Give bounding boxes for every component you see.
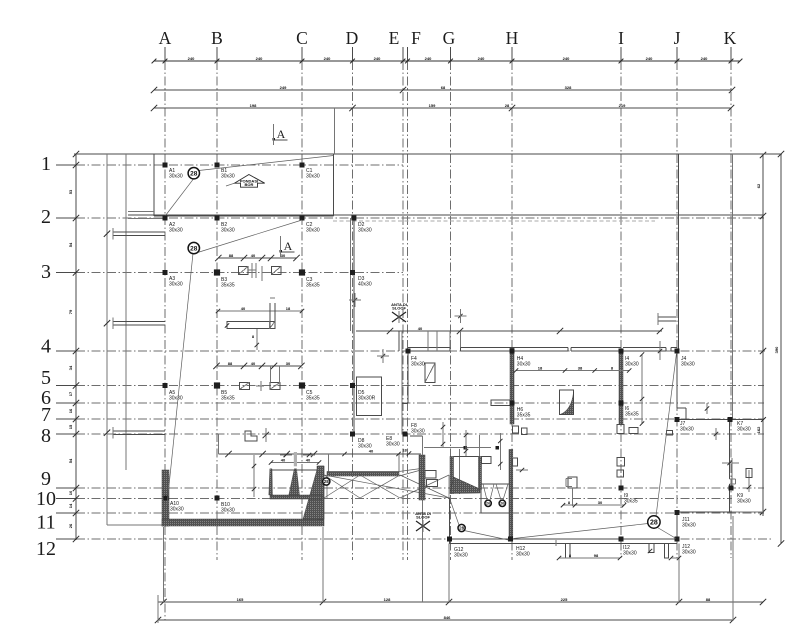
svg-text:30x30: 30x30: [454, 553, 468, 559]
svg-text:28: 28: [650, 520, 658, 527]
svg-text:8: 8: [41, 425, 51, 447]
svg-text:5: 5: [41, 367, 51, 389]
svg-text:35x35: 35x35: [306, 396, 320, 402]
svg-text:30x30: 30x30: [681, 362, 695, 368]
svg-text:18: 18: [286, 306, 291, 311]
svg-text:38: 38: [578, 366, 583, 371]
svg-text:C: C: [296, 28, 308, 48]
svg-text:88: 88: [706, 597, 711, 602]
svg-text:A: A: [277, 127, 286, 141]
svg-text:30x30: 30x30: [517, 362, 531, 368]
svg-text:240: 240: [374, 56, 381, 61]
svg-text:165: 165: [237, 597, 244, 602]
svg-text:40x30: 40x30: [358, 282, 372, 288]
svg-text:40: 40: [281, 458, 286, 463]
svg-text:159: 159: [429, 103, 436, 108]
svg-text:26: 26: [486, 501, 491, 506]
svg-text:40: 40: [251, 361, 256, 366]
svg-text:30x30: 30x30: [306, 228, 320, 234]
svg-text:198: 198: [250, 103, 257, 108]
svg-text:30x30: 30x30: [221, 174, 235, 180]
svg-text:30x30: 30x30: [682, 550, 696, 556]
svg-text:30: 30: [286, 361, 291, 366]
svg-text:128: 128: [384, 597, 391, 602]
svg-text:30x30: 30x30: [682, 523, 696, 529]
svg-text:219: 219: [619, 103, 626, 108]
svg-text:12: 12: [36, 538, 56, 560]
svg-text:34: 34: [68, 365, 73, 370]
svg-text:30x30: 30x30: [411, 429, 425, 435]
svg-text:30x30: 30x30: [358, 228, 372, 234]
svg-text:53: 53: [68, 189, 73, 194]
svg-text:54: 54: [68, 458, 73, 463]
svg-text:10: 10: [36, 488, 56, 510]
svg-text:162: 162: [756, 426, 761, 433]
svg-text:40: 40: [241, 306, 246, 311]
svg-text:E: E: [389, 28, 400, 48]
svg-text:B: B: [211, 28, 223, 48]
svg-text:98: 98: [594, 553, 599, 558]
svg-text:30x30: 30x30: [386, 442, 400, 448]
svg-text:9: 9: [41, 468, 51, 490]
svg-text:30x30R: 30x30R: [358, 396, 376, 402]
svg-text:H: H: [506, 28, 519, 48]
svg-text:26: 26: [500, 501, 505, 506]
svg-text:30x30: 30x30: [625, 362, 639, 368]
svg-text:2: 2: [41, 206, 51, 228]
svg-text:28: 28: [190, 245, 198, 252]
svg-text:30x30: 30x30: [170, 507, 184, 513]
svg-text:240: 240: [256, 56, 263, 61]
svg-text:68: 68: [441, 85, 446, 90]
svg-text:225: 225: [561, 597, 568, 602]
svg-text:240: 240: [425, 56, 432, 61]
svg-text:30x30: 30x30: [358, 444, 372, 450]
svg-text:7: 7: [41, 404, 51, 426]
svg-text:16: 16: [68, 408, 73, 413]
svg-text:26: 26: [68, 523, 73, 528]
svg-text:30x30: 30x30: [169, 282, 183, 288]
svg-text:40: 40: [418, 326, 423, 331]
svg-text:30x30: 30x30: [737, 499, 751, 505]
svg-text:J: J: [674, 28, 681, 48]
svg-text:88: 88: [228, 361, 233, 366]
svg-text:249: 249: [280, 85, 287, 90]
svg-text:28: 28: [505, 103, 510, 108]
svg-text:240: 240: [646, 56, 653, 61]
svg-text:35x35: 35x35: [306, 283, 320, 289]
svg-text:35x35: 35x35: [221, 396, 235, 402]
svg-text:F: F: [411, 28, 421, 48]
svg-text:30x30: 30x30: [306, 174, 320, 180]
svg-text:62: 62: [756, 183, 761, 188]
svg-text:4: 4: [41, 336, 51, 358]
svg-text:390: 390: [774, 346, 779, 353]
svg-text:1: 1: [41, 153, 51, 175]
svg-text:11: 11: [36, 512, 55, 534]
svg-text:28: 28: [190, 171, 198, 178]
svg-text:30: 30: [281, 253, 286, 258]
svg-text:BOR: BOR: [245, 182, 254, 187]
svg-text:30x30: 30x30: [623, 551, 637, 557]
svg-text:30x30: 30x30: [221, 508, 235, 514]
svg-text:240: 240: [701, 56, 708, 61]
svg-text:K: K: [724, 28, 737, 48]
svg-text:SLOOF: SLOOF: [392, 306, 406, 311]
svg-text:I: I: [618, 28, 624, 48]
svg-text:30x30: 30x30: [411, 362, 425, 368]
svg-text:35x35: 35x35: [517, 413, 531, 419]
svg-text:D: D: [346, 28, 359, 48]
svg-text:28: 28: [324, 479, 330, 484]
svg-text:A: A: [159, 28, 172, 48]
svg-text:A: A: [284, 239, 293, 253]
svg-text:240: 240: [324, 56, 331, 61]
svg-text:240: 240: [188, 56, 195, 61]
svg-text:35x35: 35x35: [625, 412, 639, 418]
svg-text:28: 28: [459, 526, 465, 531]
svg-text:15: 15: [68, 424, 73, 429]
svg-text:240: 240: [478, 56, 485, 61]
svg-text:30x35: 30x35: [624, 499, 638, 505]
svg-text:846: 846: [444, 615, 451, 620]
svg-text:40: 40: [251, 253, 256, 258]
svg-text:18: 18: [402, 448, 407, 453]
svg-text:10: 10: [68, 490, 73, 495]
svg-text:88: 88: [229, 253, 234, 258]
svg-text:40: 40: [306, 458, 311, 463]
svg-text:79: 79: [68, 309, 73, 314]
svg-text:17: 17: [68, 391, 73, 396]
svg-text:30x30: 30x30: [221, 228, 235, 234]
svg-text:30x30: 30x30: [737, 427, 751, 433]
svg-text:30: 30: [598, 500, 603, 505]
svg-text:30x30: 30x30: [680, 427, 694, 433]
svg-text:240: 240: [563, 56, 570, 61]
svg-text:14: 14: [68, 503, 73, 508]
svg-text:SLOOF: SLOOF: [416, 515, 430, 520]
svg-text:328: 328: [565, 85, 572, 90]
svg-text:54: 54: [68, 242, 73, 247]
svg-text:30x30: 30x30: [169, 174, 183, 180]
svg-text:G: G: [443, 28, 456, 48]
svg-text:30x30: 30x30: [169, 396, 183, 402]
svg-text:30x30: 30x30: [516, 552, 530, 558]
svg-text:18: 18: [538, 366, 543, 371]
svg-text:35x35: 35x35: [221, 283, 235, 289]
svg-text:3: 3: [41, 261, 51, 283]
svg-text:30x30: 30x30: [169, 228, 183, 234]
